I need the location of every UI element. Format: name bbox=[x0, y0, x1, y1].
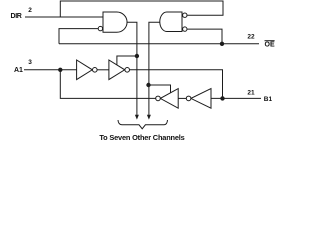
svg-text:B1: B1 bbox=[264, 96, 273, 103]
svg-text:3: 3 bbox=[28, 59, 32, 66]
svg-text:To Seven Other Channels: To Seven Other Channels bbox=[99, 133, 184, 142]
svg-text:DIR: DIR bbox=[11, 13, 22, 20]
svg-text:OE: OE bbox=[265, 42, 275, 49]
svg-text:22: 22 bbox=[247, 33, 255, 40]
svg-text:A1: A1 bbox=[14, 67, 23, 74]
svg-text:21: 21 bbox=[247, 89, 255, 96]
svg-text:2: 2 bbox=[28, 7, 32, 14]
